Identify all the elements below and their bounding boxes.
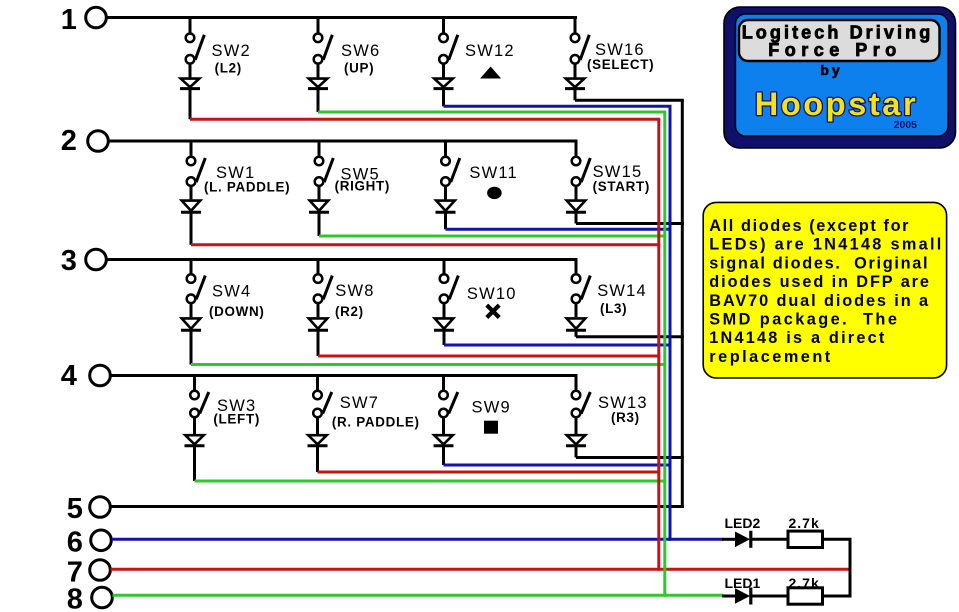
diode of SW4 [181, 304, 201, 365]
switch SW3 [190, 376, 209, 418]
svg-text:SW14: SW14 [597, 282, 647, 300]
wire LED2 to resistor [752, 538, 788, 541]
wire green bus row 3 [191, 363, 666, 366]
svg-text:(L2): (L2) [215, 61, 242, 76]
wire black vertical bus [681, 100, 684, 508]
wire black bus row 2 [576, 222, 684, 225]
svg-text:SW8: SW8 [335, 282, 374, 300]
wire LED2 anode [722, 538, 736, 541]
symbol cross (SW10) [487, 305, 499, 317]
switch SW10 [440, 260, 459, 304]
svg-text:2005: 2005 [894, 119, 918, 131]
symbol square (SW9) [484, 421, 498, 434]
svg-text:(L3): (L3) [600, 301, 627, 316]
resistor 2.7k (LED2) [788, 531, 823, 547]
wire green bus row 4 [195, 480, 667, 483]
diode of SW11 [436, 187, 456, 230]
LED LED2 [735, 532, 750, 548]
diode of SW2 [180, 65, 200, 120]
svg-text:(SELECT): (SELECT) [587, 57, 654, 72]
svg-text:LEDs) are 1N4148 small: LEDs) are 1N4148 small [709, 236, 943, 254]
wire blue bus row 4 [444, 464, 672, 467]
wire resistor to common (LED1) [823, 595, 852, 598]
wire red bus row 2 [191, 243, 660, 246]
symbol triangle (SW12) [480, 67, 501, 79]
logo box outer [724, 7, 956, 148]
wire black bus row 1 [575, 99, 684, 102]
logo title panel [739, 20, 940, 61]
wire LED common vertical [849, 539, 852, 597]
diode of SW12 [434, 65, 454, 107]
svg-text:SW4: SW4 [212, 283, 251, 301]
diode of SW6 [308, 65, 328, 113]
diode of SW1 [181, 187, 201, 245]
diode of SW8 [308, 304, 328, 356]
wire blue bus row 3 [444, 344, 672, 347]
svg-text:5: 5 [67, 493, 83, 525]
svg-text:(START): (START) [593, 179, 650, 194]
svg-text:(DOWN): (DOWN) [209, 304, 265, 319]
switch SW4 [187, 260, 206, 304]
svg-text:diodes used in DFP are: diodes used in DFP are [709, 273, 931, 291]
wire LED1 anode [722, 595, 736, 598]
svg-text:SW10: SW10 [467, 285, 517, 303]
svg-text:SW7: SW7 [340, 394, 379, 412]
wire green bus row 1 [318, 111, 666, 114]
switch SW15 [572, 141, 591, 186]
svg-text:(L. PADDLE): (L. PADDLE) [204, 179, 290, 194]
note box [703, 202, 946, 378]
wire LED1 to resistor [752, 595, 788, 598]
wire row 4 [111, 374, 578, 377]
node 6 terminal circle [91, 530, 112, 551]
switch SW9 [439, 376, 458, 418]
switch SW8 [314, 260, 333, 304]
svg-text:SW12: SW12 [465, 42, 515, 60]
node 5 terminal circle [90, 497, 111, 518]
svg-text:(R2): (R2) [335, 304, 364, 319]
switch SW1 [187, 141, 206, 186]
LED LED1 [735, 588, 750, 604]
svg-text:SW6: SW6 [341, 42, 380, 60]
wire row 3 [107, 258, 578, 261]
switch SW12 [439, 18, 458, 64]
switch SW7 [313, 376, 332, 418]
diode of SW5 [309, 187, 329, 236]
svg-text:LED1: LED1 [725, 575, 761, 591]
svg-text:2.7k: 2.7k [789, 515, 820, 531]
svg-text:1N4148 is a direct: 1N4148 is a direct [709, 329, 886, 347]
node 8 terminal circle [92, 587, 113, 608]
symbol circle (SW11) [487, 187, 502, 199]
wire red bus row 1 [190, 118, 660, 121]
switch SW14 [572, 260, 591, 304]
wire blue bus row 1 [444, 105, 672, 108]
svg-text:SW9: SW9 [472, 399, 511, 417]
wire red vertical bus [657, 119, 660, 570]
wire row 2 [109, 140, 578, 143]
node 1 terminal circle [86, 7, 107, 28]
svg-text:SW11: SW11 [469, 164, 518, 182]
diode of SW10 [434, 304, 454, 345]
note text [709, 217, 943, 366]
wire row 7 [111, 568, 852, 571]
svg-text:Hoopstar: Hoopstar [755, 86, 918, 122]
svg-text:8: 8 [67, 584, 83, 612]
svg-text:Force Pro: Force Pro [768, 40, 902, 60]
svg-text:2: 2 [61, 125, 77, 157]
wire green bus row 2 [319, 235, 666, 238]
wire blue bus row 2 [446, 228, 672, 231]
node 3 terminal circle [86, 249, 107, 270]
wire red bus row 3 [318, 355, 660, 358]
switch SW13 [572, 376, 591, 418]
svg-text:(RIGHT): (RIGHT) [335, 178, 390, 193]
switch SW2 [186, 18, 205, 64]
wire black bus row 3 [576, 335, 684, 338]
diode of SW14 [566, 304, 586, 337]
wire row 6 [112, 538, 724, 541]
wire blue vertical bus [669, 106, 672, 541]
switch SW11 [441, 141, 460, 186]
svg-text:by: by [820, 63, 843, 79]
svg-text:(UP): (UP) [344, 61, 374, 76]
wire red bus row 4 [318, 471, 661, 474]
svg-text:6: 6 [67, 527, 83, 559]
diode of SW7 [308, 418, 328, 472]
switch SW5 [315, 141, 334, 186]
switch SW16 [571, 18, 590, 64]
diode of SW16 [565, 65, 585, 101]
svg-text:LED2: LED2 [725, 515, 761, 531]
switch SW6 [314, 18, 333, 64]
diode of SW3 [185, 418, 205, 481]
svg-text:SMD package. The: SMD package. The [709, 311, 899, 329]
logo box inner blue [736, 14, 949, 136]
svg-text:3: 3 [61, 245, 77, 277]
svg-text:(R. PADDLE): (R. PADDLE) [332, 414, 420, 429]
svg-text:4: 4 [61, 360, 77, 392]
diode of SW15 [566, 187, 586, 224]
svg-text:BAV70 dual diodes in a: BAV70 dual diodes in a [709, 292, 930, 310]
svg-text:All diodes (except for: All diodes (except for [709, 217, 910, 235]
svg-text:signal diodes. Original: signal diodes. Original [709, 254, 929, 272]
wire row 1 [107, 16, 578, 19]
svg-text:2.7k: 2.7k [789, 575, 820, 591]
diode of SW9 [434, 418, 454, 465]
resistor 2.7k (LED1) [788, 588, 823, 604]
node 7 terminal circle [90, 560, 111, 581]
diode of SW13 [566, 418, 586, 457]
wire row 5 [111, 505, 684, 508]
svg-text:1: 1 [61, 4, 77, 36]
svg-text:(R3): (R3) [611, 410, 640, 425]
node 2 terminal circle [88, 131, 109, 152]
wire green vertical bus [663, 112, 666, 597]
wire black bus row 4 [576, 456, 684, 459]
svg-text:SW2: SW2 [212, 42, 251, 60]
svg-text:replacement: replacement [709, 348, 832, 366]
svg-text:(LEFT): (LEFT) [213, 412, 260, 427]
wire row 8 [113, 594, 724, 597]
node 4 terminal circle [90, 365, 111, 386]
wire resistor to common (LED2) [823, 538, 852, 541]
